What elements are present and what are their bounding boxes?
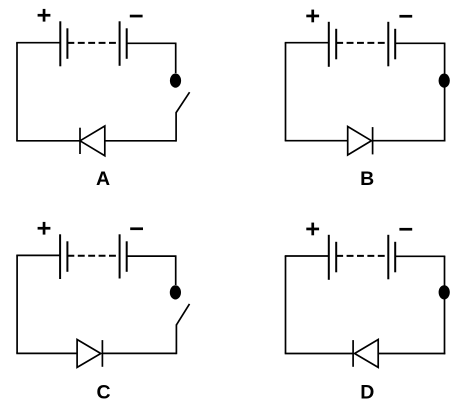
diode D-D cathode bar <box>352 340 354 367</box>
wire: C bottom-right horizontal to diode <box>102 352 176 354</box>
diode D-C cathode bar <box>101 340 103 367</box>
battery BT-C dashed link (omitted cells) <box>67 255 119 257</box>
plus terminal label (battery A) <box>38 9 51 22</box>
plus terminal label (battery D) <box>306 223 319 236</box>
battery BT-D cell 1 long plate (+) <box>328 235 330 280</box>
battery BT-D cell 2 long plate <box>387 235 389 279</box>
wire: C left vertical <box>16 255 18 353</box>
wire: D bottom-right horizontal to diode <box>378 353 445 355</box>
minus terminal label (battery D) <box>399 228 412 231</box>
battery BT-D cell 1 short plate <box>335 242 337 272</box>
wire: B right vertical (closed, no switch) <box>444 43 446 141</box>
wire: D top-right horizontal from battery <box>395 255 445 257</box>
diode D-C (pointing right) triangle <box>77 340 101 368</box>
wire: C top-left horizontal to battery <box>16 254 60 256</box>
wire: B top-left horizontal to battery <box>285 42 329 44</box>
plus terminal label (battery B) <box>306 10 319 23</box>
switch S-A blade (open) <box>176 92 190 112</box>
wire: A bottom-left horizontal from diode <box>16 140 80 142</box>
battery BT-C cell 2 short plate (-) <box>126 241 128 271</box>
battery BT-C cell 1 long plate (+) <box>59 234 61 279</box>
node: A switch contact dot <box>170 74 181 88</box>
diode D-D (pointing left) triangle <box>355 340 379 368</box>
battery BT-C cell 1 short plate <box>66 241 68 271</box>
minus terminal label (battery B) <box>399 15 412 18</box>
wire: B top-right horizontal from battery <box>395 42 445 44</box>
wire: B bottom-right horizontal to diode <box>373 140 446 142</box>
wire: A bottom-right horizontal to diode <box>105 140 176 142</box>
battery BT-B dashed link (omitted cells) <box>336 42 388 44</box>
wire: B left vertical <box>285 43 287 141</box>
wire: C top-right horizontal from battery <box>127 255 177 257</box>
node: D junction dot on right wire <box>439 285 450 299</box>
svg-text:A: A <box>96 168 110 190</box>
wire: A top-right horizontal from battery <box>127 42 177 44</box>
node: C switch contact dot <box>170 285 181 299</box>
battery BT-B cell 1 short plate <box>335 29 337 60</box>
diode D-B (pointing right) triangle <box>348 127 372 156</box>
wire: B bottom-left horizontal from diode <box>285 140 348 142</box>
wire: A right vertical down to switch node <box>175 43 177 73</box>
diode D-B cathode bar <box>372 127 374 154</box>
wire: C right vertical below switch <box>175 324 177 354</box>
wire: A left vertical <box>16 43 18 141</box>
battery BT-B cell 2 long plate <box>387 22 389 67</box>
diode D-A cathode bar <box>79 128 81 154</box>
diode D-A (pointing left) triangle <box>80 126 105 156</box>
svg-text:B: B <box>360 168 374 190</box>
wire: D top-left horizontal to battery <box>285 255 329 257</box>
battery BT-A cell 1 long plate (+) <box>59 21 61 66</box>
wire: A right vertical below switch <box>175 112 177 142</box>
plus terminal label (battery C) <box>38 222 51 235</box>
battery BT-A dashed link (omitted cells) <box>67 42 119 44</box>
wire: D left vertical <box>285 256 287 354</box>
wire: D bottom-left horizontal from diode <box>285 353 353 355</box>
wire: D right vertical (closed, no switch) <box>444 256 446 354</box>
battery BT-B cell 1 long plate (+) <box>328 22 330 67</box>
wire: C bottom-left horizontal from diode <box>16 352 77 354</box>
wire: C right vertical down to switch node <box>175 256 177 285</box>
battery BT-A cell 1 short plate <box>66 28 68 59</box>
battery BT-A cell 2 short plate (-) <box>126 28 128 59</box>
minus terminal label (battery C) <box>130 227 143 230</box>
battery BT-B cell 2 short plate (-) <box>394 29 396 60</box>
node: B junction dot on right wire <box>439 74 450 88</box>
battery BT-D cell 2 short plate (-) <box>394 242 396 272</box>
switch S-C blade (open) <box>176 304 189 325</box>
battery BT-C cell 2 long plate <box>119 234 121 278</box>
battery BT-D dashed link (omitted cells) <box>336 255 388 257</box>
svg-text:D: D <box>360 382 374 404</box>
minus terminal label (battery A) <box>130 15 143 18</box>
battery BT-A cell 2 long plate <box>119 21 121 66</box>
svg-text:C: C <box>96 382 110 404</box>
wire: A top-left horizontal to battery <box>16 42 60 44</box>
